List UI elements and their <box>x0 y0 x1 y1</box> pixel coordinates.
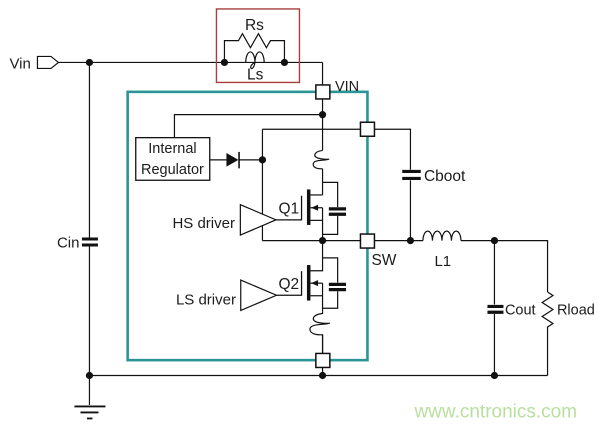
svg-text:Q1: Q1 <box>278 200 299 217</box>
svg-text:Ls: Ls <box>247 66 264 83</box>
wire VIN vertical upper <box>322 62 324 150</box>
svg-text:Cin: Cin <box>57 234 80 251</box>
resistor Rload <box>542 292 553 327</box>
svg-text:L1: L1 <box>434 253 451 270</box>
wire Cout lower <box>493 314 495 376</box>
node gnd left <box>86 372 93 379</box>
wire Cboot to SW node <box>409 180 411 240</box>
capacitor Q2 Coss <box>323 258 347 308</box>
inductor Ls <box>246 52 264 69</box>
svg-text:Rs: Rs <box>245 17 264 34</box>
node Rs left <box>221 59 228 66</box>
svg-text:Cboot: Cboot <box>424 168 466 185</box>
capacitor Cout <box>487 306 503 312</box>
wire boot pad to Cboot <box>374 129 410 170</box>
node L1 out <box>491 237 498 244</box>
wire coil to Q1 drain <box>322 169 324 195</box>
node Vin/Cin junction <box>86 59 93 66</box>
wire L1 to load <box>461 241 548 292</box>
svg-text:HS driver: HS driver <box>172 215 235 232</box>
capacitor Cboot <box>402 171 421 178</box>
node SW internal <box>319 237 326 244</box>
svg-text:Q2: Q2 <box>278 276 299 293</box>
IC boundary box <box>128 92 368 360</box>
wire SW pad to L1 <box>374 240 423 242</box>
svg-text:Cout: Cout <box>505 302 536 318</box>
svg-text:SW: SW <box>371 252 396 269</box>
ground <box>74 406 105 418</box>
node gnd center <box>319 372 326 379</box>
resistor Rs <box>224 34 284 63</box>
wire bottom ground rail <box>89 375 547 377</box>
wire Rload lower <box>547 326 549 375</box>
internal regulator U1 <box>136 138 210 181</box>
svg-text:Internal: Internal <box>148 141 196 157</box>
diode D1 <box>210 152 263 168</box>
transistor Q1 <box>276 189 323 240</box>
parasitic inductor coil below Q2 <box>310 312 329 354</box>
wire Cout upper <box>493 241 495 305</box>
sense element red box <box>216 9 299 83</box>
transistor Q2 <box>276 241 322 312</box>
svg-text:VIN: VIN <box>335 79 359 95</box>
pin pad VIN <box>316 85 330 99</box>
input connector Vin <box>37 56 58 68</box>
svg-text:Regulator: Regulator <box>141 162 204 178</box>
LS driver buffer <box>241 280 277 310</box>
pin pad BOOT <box>360 122 374 136</box>
svg-text:Vin: Vin <box>9 55 30 72</box>
svg-text:Rload: Rload <box>557 302 595 318</box>
wire SW rail <box>262 240 360 242</box>
parasitic inductor coil above Q1 <box>313 150 329 168</box>
svg-text:LS driver: LS driver <box>176 291 236 308</box>
pin pad GND <box>316 353 330 367</box>
node gnd Cout <box>491 372 498 379</box>
HS driver buffer <box>240 205 276 235</box>
wire Cin branch upper <box>88 62 90 237</box>
wire bootstrap rail vertical <box>261 129 263 240</box>
wire boot to pad <box>262 128 360 130</box>
pin pad SW <box>360 234 374 248</box>
wire Cin branch lower <box>88 246 90 375</box>
node Cboot/SW <box>407 237 414 244</box>
node Rs right <box>281 59 288 66</box>
capacitor Q1 Coss <box>323 182 347 234</box>
inductor L1 <box>423 231 461 240</box>
wire main Vin rail <box>58 61 322 63</box>
capacitor Cin <box>82 239 98 245</box>
wire regulator riser <box>174 115 322 138</box>
wire coil to gnd pad <box>322 335 324 376</box>
wire ground stub <box>88 376 90 405</box>
node VIN internal <box>319 111 326 118</box>
node diode out <box>259 156 266 163</box>
svg-text:www.cntronics.com: www.cntronics.com <box>413 401 577 422</box>
